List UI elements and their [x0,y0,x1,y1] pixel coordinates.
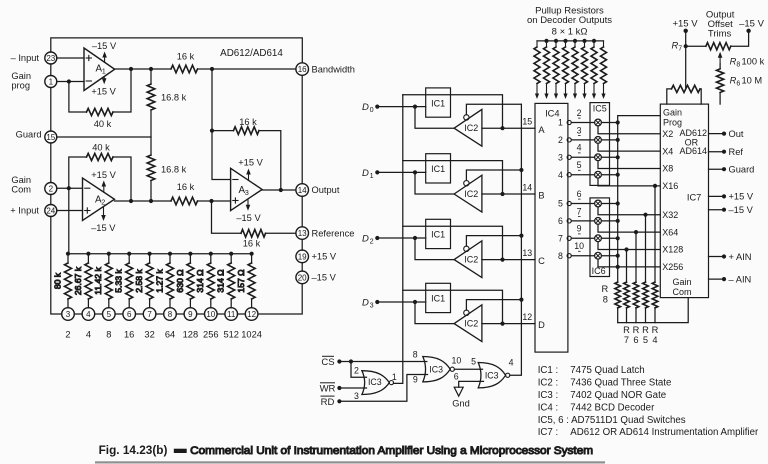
node pin 13 (Reference) [296,227,309,240]
resistor 314 ohm ladder [207,254,214,308]
svg-text:3: 3 [577,125,582,135]
junction A2 output divider [149,199,153,203]
svg-text:0: 0 [370,105,374,114]
label IC5 pin 6 [577,189,582,199]
label A3 [239,185,249,197]
svg-text:7: 7 [147,310,152,319]
wire IC7 - AIN pin [709,278,725,280]
svg-text:8: 8 [413,350,418,360]
node D3 terminal [375,300,379,304]
resistor 16 k (reference) [241,230,266,238]
svg-text:R: R [652,325,659,335]
resistor R4 (gain set) [652,282,658,323]
wire pin23-pin1 [50,64,52,76]
svg-text:–15 V: –15 V [91,223,116,233]
enable bubble IC2 block 4 [464,310,469,315]
label IC4 pin 5 [558,199,563,209]
label IC4 pin 1 [558,118,563,128]
label X2 (IC7) [662,129,673,139]
wire ladder pin link [156,313,164,315]
label - Input [11,53,40,63]
junction ladder tap 12 [250,252,254,256]
wire IC7 Out pin [709,133,725,135]
svg-text:16 k: 16 k [239,117,257,127]
latch IC1 block 1 [426,88,451,117]
enable bubble IC2 block 3 [464,246,469,251]
svg-text:8: 8 [168,310,173,319]
wire IC2 enable jog block 4 [466,300,521,311]
svg-text:256: 256 [203,330,219,340]
label decoder input B [538,191,544,201]
label gain 512 [223,330,239,340]
svg-text:1: 1 [49,77,54,86]
wire switch S2 to common [601,139,617,141]
three-state buffer IC2 block 4 [454,305,482,342]
wire +15V to R7 junction [685,31,687,88]
svg-text:16 k: 16 k [177,182,195,192]
label AD612/AD614 [220,48,283,59]
junction common select 8 [616,254,620,258]
node +15V trim terminal [684,29,688,33]
svg-text:6: 6 [633,335,638,345]
svg-text:–15 V: –15 V [236,213,261,223]
svg-text:4: 4 [577,143,582,153]
label Pullup Resistors [535,5,604,16]
resistor R5 (gain set) [643,282,649,323]
wire 16k to A3 + input [198,200,231,202]
wire A3 feedback left [212,130,234,132]
label caption text [190,445,593,457]
svg-text:7475 Quad Latch: 7475 Quad Latch [570,365,644,376]
label pin 3 (IC3a) [354,391,359,401]
svg-text:IC5: IC5 [593,103,607,113]
wire switch S8 to X256 line [598,259,660,267]
svg-text:19: 19 [298,252,307,261]
bubble IC4 output 6 [567,219,571,223]
wire pin24 to A2 + input [57,210,83,212]
resistor R8 (gain set) [615,282,621,323]
resistor 16 k (A2 output) [171,197,198,205]
wire IC4 pin 4 to switch [571,174,594,176]
svg-text:10: 10 [206,310,215,319]
label 8 x 1 kOhm [552,26,588,37]
label X64 (IC7) [662,227,678,237]
wire ladder pin link [217,313,225,315]
wire pin2 to A2 - input [57,187,83,189]
node pin 11 [225,308,238,321]
bubble IC4 output 4 [567,173,571,177]
resistor R6 10 M [717,69,724,93]
label 80 k [52,272,62,289]
junction ladder tap 3 [66,252,70,256]
svg-text:11.42 k: 11.42 k [93,267,103,295]
label -15 V [729,205,754,215]
label IC5 pin 5 [577,160,582,170]
quad switch IC6 (AD7511D1) [590,198,610,277]
svg-text:RD: RD [321,397,335,408]
svg-text:A: A [538,125,545,135]
junction common select 2 [616,138,620,142]
op-amp A2 [83,178,115,221]
bubble IC4 output 1 [567,120,571,124]
switch S2 (X4) [595,137,602,144]
label on Decoder Outputs [527,15,612,26]
resistor 1 kOhm pullup 4 [563,41,569,84]
bubble IC4 output 3 [567,155,571,159]
svg-text:Gain: Gain [663,107,682,117]
resistor R6 (gain set) [633,282,639,323]
switch S3 (X8) [595,154,602,161]
label D2 [362,233,374,245]
three-state buffer IC2 block 3 [454,241,482,278]
label pin 12 [522,312,532,322]
wire ladder pin link [197,313,205,315]
svg-text:7436 Quad Three State: 7436 Quad Three State [570,378,671,389]
wire divider top stub [150,69,152,84]
switch S7 (X128) [595,235,602,242]
latch IC1 block 4 [426,283,451,312]
wire switch S3 to X8 line [598,161,660,169]
svg-text:2: 2 [577,108,582,118]
svg-text:13: 13 [298,229,307,238]
wire D3 data line [377,301,425,303]
wire latch enable branch D3 [403,290,503,323]
label gain 128 [183,330,199,340]
svg-text:6: 6 [127,310,132,319]
svg-text:Fig. 14.23(b): Fig. 14.23(b) [99,443,168,457]
node pin 5 [103,308,116,321]
arrow +15V supply A2 [102,181,107,193]
svg-text:D: D [538,320,545,330]
svg-text:8: 8 [558,251,563,261]
node D0 terminal [375,105,379,109]
resistor R7 offset pot [672,85,701,92]
wire pin23 to A1 + input [57,57,84,59]
wire R5 riser [645,215,647,282]
label IC4 pin 6 [558,216,563,226]
svg-text:Commercial Unit of Instrumenta: Commercial Unit of Instrumentation Ampli… [190,445,593,457]
label +15 V (A1) [91,87,116,97]
resistor 1 kOhm pullup 5 [572,41,578,84]
label 314 ohm [195,269,205,293]
wire A1 feedback right [113,69,131,112]
svg-text:10: 10 [574,241,584,251]
svg-text:16.8 k: 16.8 k [161,93,187,103]
junction ladder tap 11 [229,252,233,256]
label IC4 pin 4 [558,170,563,180]
junction A2 output feedback [129,199,133,203]
svg-text:Bandwidth: Bandwidth [312,64,355,74]
svg-text:Out: Out [729,129,744,139]
wire R4 riser [654,186,656,282]
svg-text:1.27 k: 1.27 k [154,269,164,293]
label Bandwidth [312,64,355,74]
resistor 1 kOhm pullup 6 [582,41,588,84]
label AD612 OR AD614 [679,128,707,156]
switch S8 (X256) [595,252,602,259]
wire A3 plus to reference [212,201,242,233]
svg-text:X2: X2 [662,129,673,139]
wire switch S5 to common [601,203,617,205]
label 630 ohm [175,269,185,293]
resistor R8 100 k trim [706,43,731,50]
resistor 80 k ladder [65,254,72,308]
svg-text:10: 10 [452,356,462,366]
junction D2 read tap [413,236,417,240]
wire IC4 pin 8 to switch [571,255,594,257]
wire divider bottom [150,181,152,202]
wire A2 feedback right [113,157,131,201]
svg-text:4: 4 [652,335,657,345]
wire ladder pin link [115,313,123,315]
label +15 V (A3) [238,158,263,168]
svg-text:– Input: – Input [11,53,40,63]
node IC7 Guard terminal [722,167,726,171]
wire ladder pin link [74,313,82,315]
wire WR to IC3 pin3 [339,387,366,389]
svg-text:14: 14 [298,186,307,195]
node pin 2 (Gain Com) [45,183,57,195]
svg-text:IC1: IC1 [431,164,445,174]
svg-text:100 k: 100 k [742,57,765,67]
resistor 16.8 k (upper) [147,84,155,110]
wire IC7 Guard pin [709,168,725,170]
svg-text:5: 5 [558,199,563,209]
svg-text:Gnd: Gnd [452,399,470,409]
svg-text:16 k: 16 k [177,52,195,62]
svg-text:4: 4 [509,357,514,367]
label caption Fig 14.23(b) [99,443,168,457]
svg-text:7: 7 [577,206,582,216]
svg-text:Guard: Guard [729,165,755,175]
label R4 bottom [652,325,659,345]
label Gnd [452,399,470,409]
wire switch S8 to common [601,255,617,257]
node IC7 -15 V terminal [722,208,726,212]
svg-text:512: 512 [223,330,239,340]
resistor 1 kOhm pullup 2 [544,41,550,84]
svg-text:26.67 k: 26.67 k [73,266,83,295]
label pin 1 (IC3a) [392,372,397,382]
bubble IC3a output [389,381,393,385]
junction D0 read tap [413,105,417,109]
node pin 1 (Gain prog) [45,76,57,88]
svg-text:IC3: IC3 [485,370,499,380]
label 16 k (A1 output) [177,52,195,62]
wire IC7 Ref pin [709,151,725,153]
label gain 16 [124,330,134,340]
svg-text:Gain: Gain [11,71,31,81]
label + AIN [729,252,752,262]
junction A3 output feedback [279,188,283,192]
wire switch S6 to common [601,220,617,222]
wire 16k to pin13 [266,232,296,234]
svg-text:–15 V: –15 V [739,18,764,29]
svg-text:11: 11 [227,310,236,319]
node IC7 Out terminal [722,132,726,136]
junction enable bus block 2 [519,168,523,172]
svg-text:X8: X8 [662,164,673,174]
node pin 20 (-15 V) [296,271,309,284]
label 16 k (A3 feedback) [239,117,257,127]
svg-text:630 Ω: 630 Ω [175,269,185,293]
junction R7 tap [624,247,628,251]
wire switch S4 to common [601,174,617,176]
svg-text:X4: X4 [662,146,673,156]
svg-text:64: 64 [165,330,175,340]
wire R6 riser [635,232,637,282]
wire divider middle [150,110,152,155]
arrow -15V supply A1 [102,52,107,63]
resistor 26.67 k ladder [85,254,92,308]
svg-text:+15 V: +15 V [91,170,116,180]
node pin 12 [245,308,258,321]
label R6 10 M [730,76,763,88]
wire switch S1 to common [601,122,617,124]
wire IC7 + AIN pin [709,256,725,258]
svg-text:+15 V: +15 V [238,158,263,168]
label Guard [16,129,42,139]
resistor 2.58 k ladder [146,254,153,308]
wire latch enable branch D2 [403,226,503,259]
svg-text:5: 5 [577,160,582,170]
svg-text:B: B [538,191,544,201]
junction pullup 5 [573,39,577,43]
junction common select 3 [616,155,620,159]
junction ladder tap 9 [188,252,192,256]
svg-text:2.58 k: 2.58 k [134,269,144,293]
label gain 8 [106,330,111,340]
label 2.58 k [134,269,144,293]
svg-text:16.8 k: 16.8 k [161,165,187,175]
svg-text:– AIN: – AIN [729,274,752,284]
wire R7 right leg [700,89,701,104]
label 1.27 k [154,269,164,293]
enable bubble IC2 block 2 [464,181,469,186]
svg-text:6: 6 [558,216,563,226]
svg-text:IC1: IC1 [431,294,445,304]
label Output [312,185,340,195]
wire switch S6 to X64 line [598,224,660,232]
wire IC2 enable jog block 3 [466,236,521,247]
svg-text:5: 5 [107,310,112,319]
wire ladder pin link [238,313,246,315]
label R7 bottom [623,325,630,345]
junction pullup 3 [554,39,558,43]
node pin 14 (Output) [296,184,309,197]
wire guard line pin15 to divider [57,136,151,138]
wire R6 to IC7 [719,93,721,105]
wire A3 output [262,189,296,191]
label IC7 [687,193,701,203]
label D3 [362,297,374,309]
node IC7 +15 V terminal [722,194,726,198]
wire ladder pin link [95,313,103,315]
label IC4 pin 7 [558,233,563,243]
svg-text:AD612 OR AD614 Instrumentation: AD612 OR AD614 Instrumentation Amplifier [570,427,759,438]
label R5 bottom [642,325,649,345]
three-state buffer IC2 block 2 [454,175,482,212]
label legend IC4 : [538,402,655,413]
svg-text:9: 9 [188,310,193,319]
svg-text:7402 Quad NOR Gate: 7402 Quad NOR Gate [570,390,666,401]
label pin 14 [522,182,532,192]
svg-text:IC2: IC2 [464,189,478,199]
svg-text:D: D [362,102,369,113]
junction pullup 7 [592,39,596,43]
svg-text:D: D [362,168,369,179]
svg-text:X16: X16 [662,181,678,191]
svg-text:2: 2 [49,184,54,193]
node pin 16 (Bandwidth) [296,63,309,76]
junction CS branch [349,359,353,363]
junction D1 read tap [413,170,417,174]
svg-text:2: 2 [101,198,105,207]
wire IC4 pin 2 to switch [571,139,594,141]
node pin 10 [205,308,218,321]
junction ladder tap 7 [148,252,152,256]
label pin 6 (IC3c) [454,371,459,381]
label IC5 pin 10 [574,241,584,251]
wire pin13-pin19 [301,239,303,250]
node IC7 + AIN terminal [722,254,726,258]
svg-text:40 k: 40 k [92,143,110,153]
svg-text:Ref: Ref [729,147,744,157]
resistor 1 kOhm pullup 3 [553,41,559,84]
decoder IC4 (7442) [535,103,568,352]
svg-text:1: 1 [102,67,106,76]
label X8 (IC7) [662,164,673,174]
svg-text:+15 V: +15 V [729,192,754,202]
svg-text:2: 2 [354,366,359,376]
svg-text:R: R [642,325,649,335]
label X32 (IC7) [662,210,678,220]
wire pin16-pin14 [301,75,303,183]
label gain 64 [165,330,175,340]
label legend IC5, 6 [538,415,686,426]
junction IC2 output block 4 [500,322,504,326]
svg-text:1: 1 [370,171,374,180]
svg-text:WR: WR [320,384,336,395]
switch S4 (X16) [595,171,602,178]
wire pin2-pin24 [50,195,52,205]
node RD terminal [337,399,341,403]
arrow +15V supply A1 [102,77,107,85]
arrow -15V supply A2 [101,207,106,222]
wire A2 output [115,200,172,202]
arrow pullup 8 to decoder [601,84,605,100]
junction common select 6 [616,219,620,223]
bubble IC3c output [506,373,510,377]
wire IC3c pin6 to ground [459,381,484,387]
enable bubble IC2 block 1 [464,115,469,120]
wire R8 trim right [731,31,749,46]
wire IC2 enable jog block 1 [466,104,521,115]
wire pin1 to A1 - input [57,81,84,83]
wire pullup top bus [537,40,604,42]
wire IC4 pin 3 to switch [571,156,594,158]
bubble IC4 output 2 [567,138,571,142]
junction common select 7 [616,236,620,240]
wire switch S4 to X16 line [598,178,660,186]
label gain 2 [65,330,70,340]
node pin 19 (+15 V) [296,250,309,263]
resistor 16 k (A3 feedback) [234,127,260,135]
wire A2 inverting to ladder bus [68,188,70,254]
wire switch S7 to common [601,237,617,239]
svg-text:IC1: IC1 [431,98,445,108]
resistor 40 k (A1 feedback) [87,108,114,115]
